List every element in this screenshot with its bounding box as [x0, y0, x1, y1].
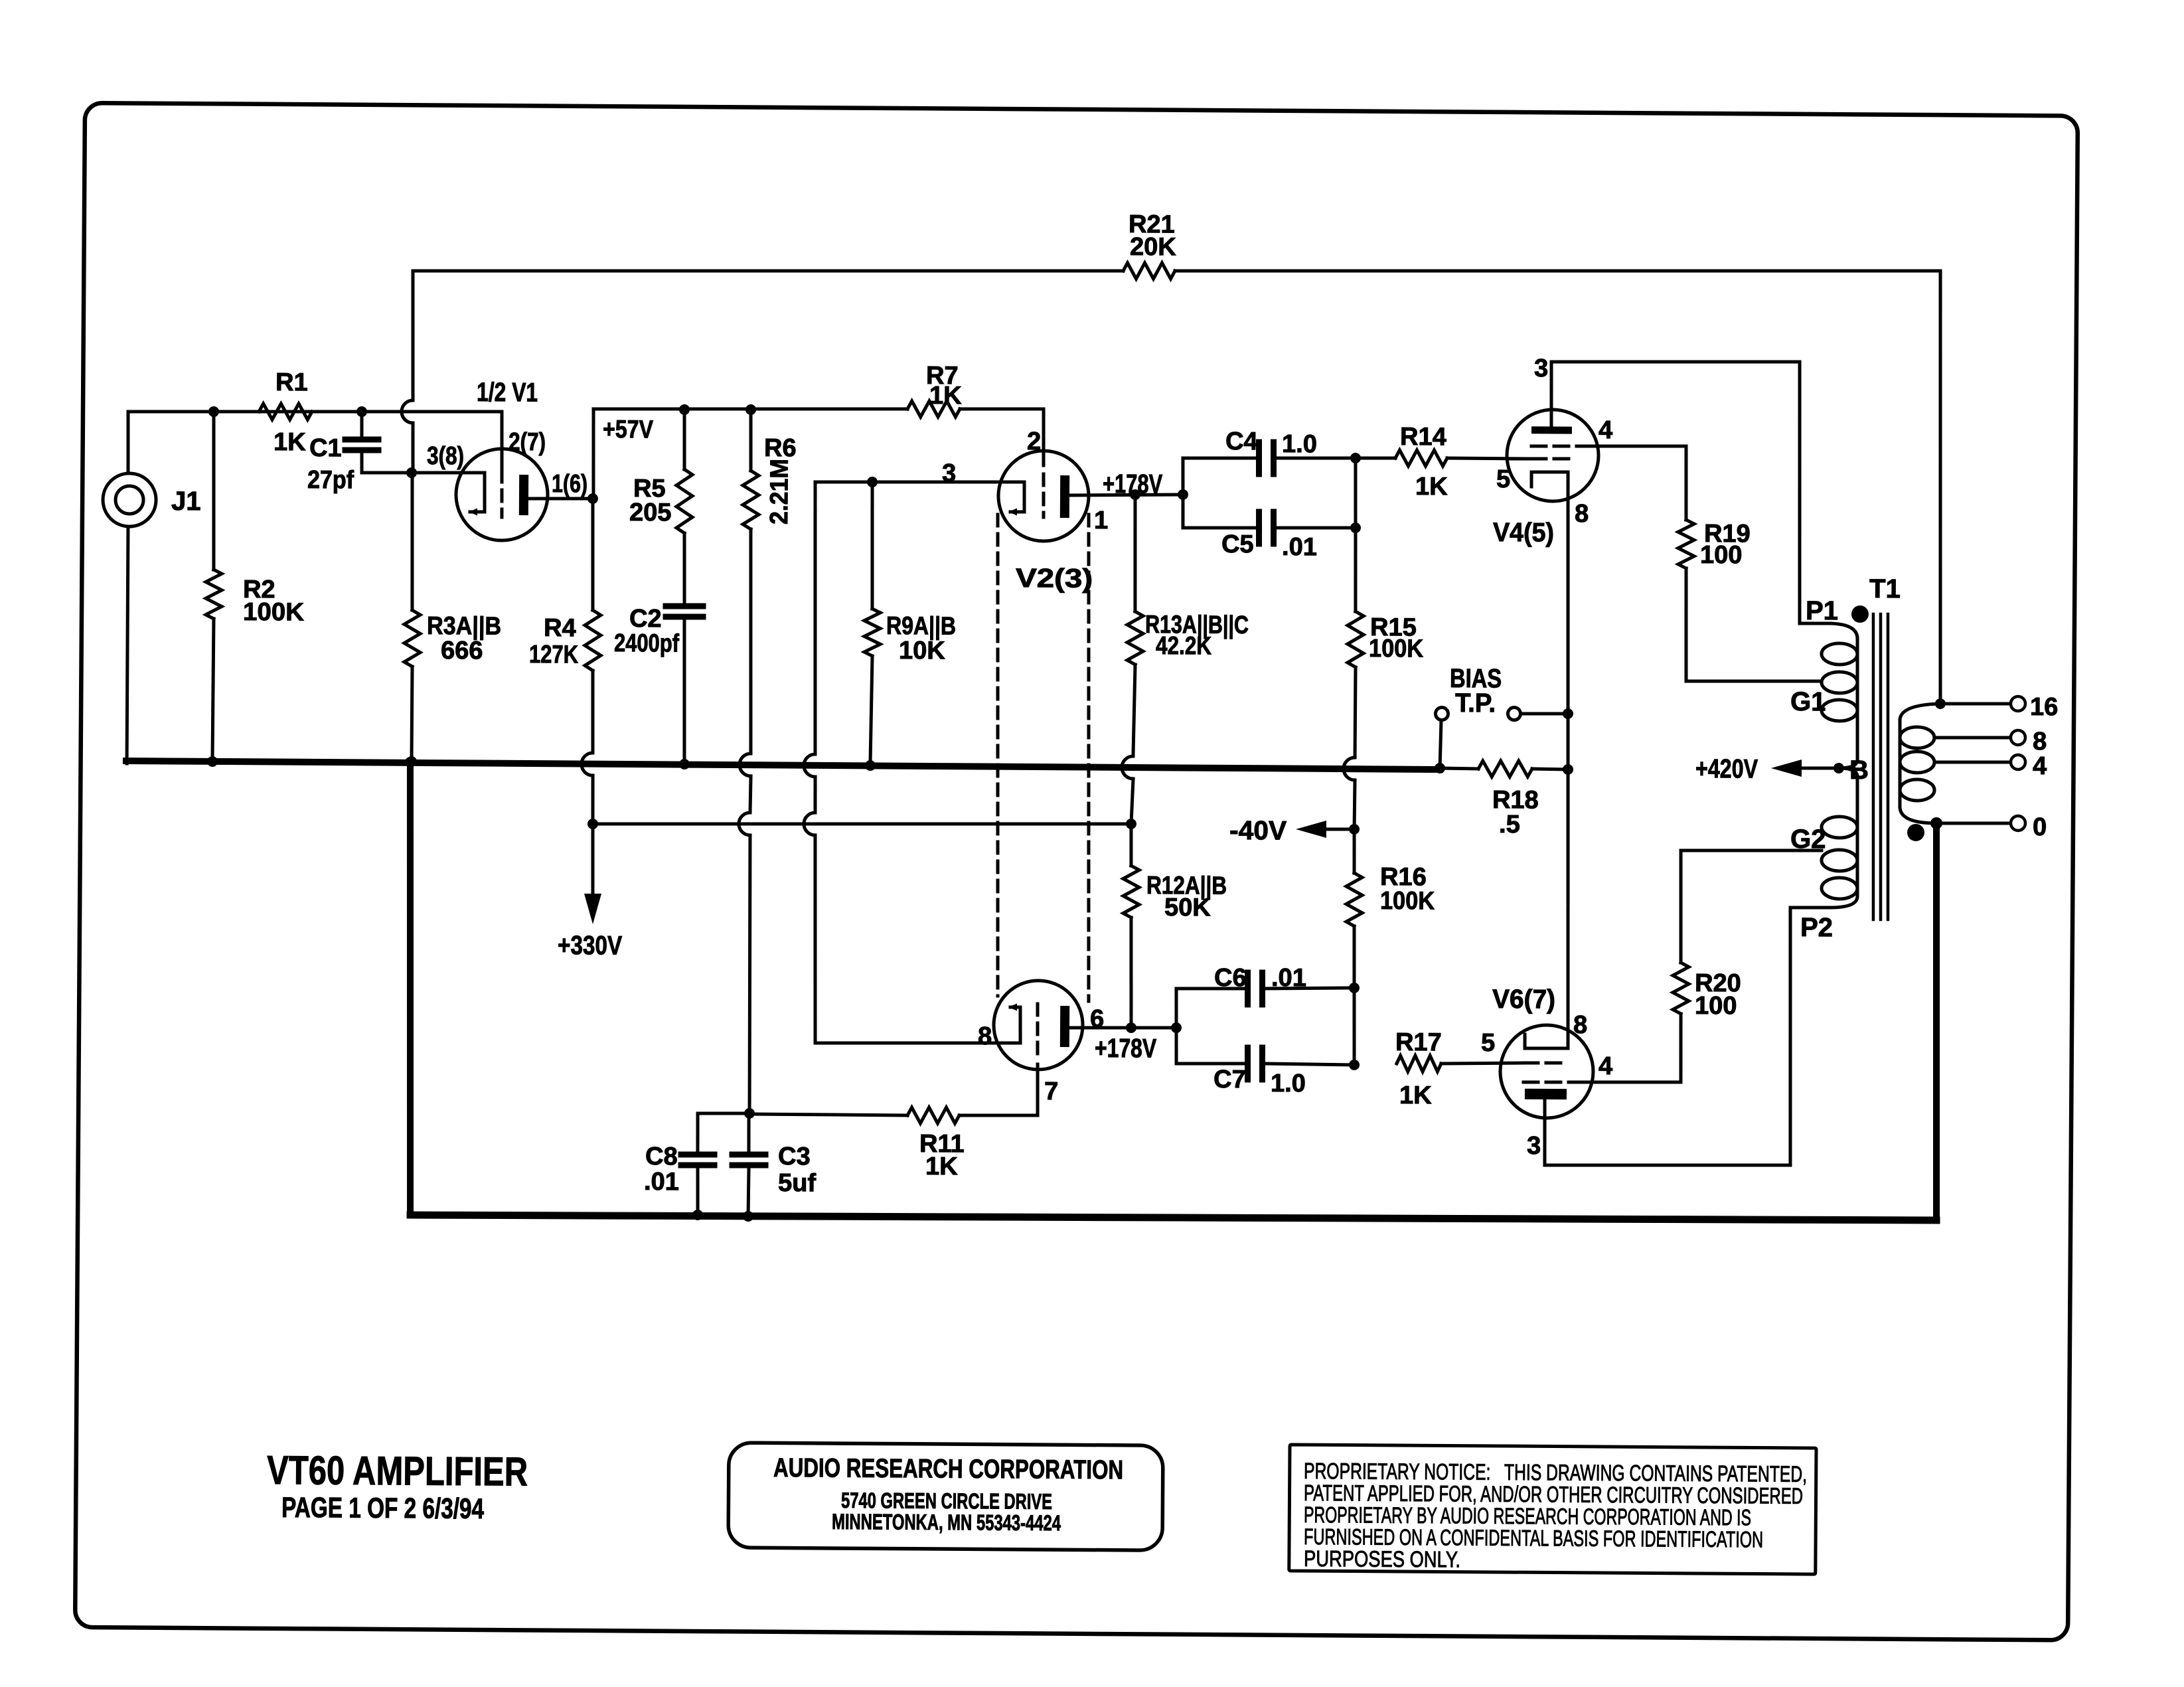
resistor R9A||B [864, 609, 881, 656]
svg-text:0: 0 [2033, 813, 2047, 841]
svg-text:R4: R4 [544, 614, 576, 642]
svg-text:100K: 100K [1380, 887, 1435, 916]
wire V6 screen to R20 [1577, 1013, 1681, 1083]
wire V4/V6 cathode bus [1564, 472, 1571, 1048]
node C8/bus junction [692, 1210, 703, 1220]
box proprietary notice [1289, 1445, 1816, 1574]
svg-text:1/2 V1: 1/2 V1 [477, 378, 538, 408]
wire R13 down [1133, 665, 1135, 756]
svg-text:100: 100 [1695, 992, 1737, 1020]
wire R17 to V6 grid [1441, 1062, 1524, 1064]
node bus end junction [1435, 763, 1445, 773]
wire feedback R21 left leg [412, 271, 414, 400]
terminal 4 [2011, 755, 2025, 769]
wire R13 top lead [1134, 495, 1136, 611]
node R9/bus junction [865, 760, 876, 771]
transformer T1 primary lower winding [1839, 768, 1857, 777]
tube envelope dashed link left [994, 515, 1000, 996]
svg-text:2(7): 2(7) [508, 428, 546, 456]
svg-text:B: B [1849, 756, 1869, 785]
transformer T1 core [1871, 614, 1875, 920]
tube V4 plate bar [1531, 426, 1572, 434]
arrow -40V [1296, 821, 1326, 838]
svg-text:.01: .01 [1271, 964, 1306, 992]
node V1 grid junction [406, 467, 417, 478]
tube V2 cathode bar [1060, 475, 1069, 518]
wire 16 ohm tap [1940, 703, 2009, 704]
wire C5 to node [1276, 527, 1356, 528]
wire R19 to G1 tap [1685, 568, 1822, 682]
wire C1 to V1 grid (y=712) [362, 472, 485, 473]
svg-text:4: 4 [1599, 416, 1612, 444]
node R3/bus junction [406, 756, 417, 767]
svg-text:C7: C7 [1213, 1066, 1246, 1093]
svg-text:20K: 20K [1130, 233, 1177, 261]
node C1 top junction [356, 406, 367, 417]
wire C4 node to R14 [1356, 456, 1395, 460]
svg-text:205: 205 [629, 499, 672, 526]
resistor R6 [743, 471, 759, 529]
wire 0 ohm tap [1936, 823, 2009, 823]
wire R4 to +330V node [592, 671, 593, 753]
svg-text:5: 5 [1481, 1029, 1495, 1057]
node TP2/cathode junction [1563, 708, 1573, 719]
resistor R4 [585, 610, 601, 671]
node R13 top junction [1130, 489, 1140, 500]
wire V1 cathode pin 1(6) [528, 498, 593, 499]
svg-text:C1: C1 [309, 434, 342, 462]
tube V4 cathode hook pin 8 [1531, 472, 1568, 487]
svg-text:3(8): 3(8) [427, 442, 464, 470]
capacitor C2 [666, 603, 703, 609]
wire +330V arrow stem [592, 824, 593, 895]
tube V3 cathode bar [1060, 1006, 1069, 1047]
svg-text:R6: R6 [764, 434, 797, 462]
tube V4 screen grid dashes pin 4 [1531, 444, 1579, 448]
svg-text:PAGE 1 OF 2 6/3/94: PAGE 1 OF 2 6/3/94 [281, 1492, 484, 1525]
box Audio Research Corporation [728, 1443, 1163, 1550]
wire R14 to V4 grid [1447, 456, 1527, 460]
wire V1 cathode down to R4 [592, 499, 593, 610]
wire R3 to bus [412, 667, 412, 762]
svg-text:R14: R14 [1400, 423, 1446, 451]
svg-text:+57V: +57V [603, 416, 654, 443]
node C6/R16 junction [1349, 983, 1360, 993]
resistor R17 [1397, 1056, 1441, 1072]
wire V4 grid entry [1507, 457, 1531, 460]
node -40V junction [1349, 824, 1360, 835]
wire grid node down to R3 [412, 473, 414, 610]
wire +57V rail riser [593, 409, 594, 499]
svg-text:42.2K: 42.2K [1156, 632, 1212, 661]
resistor R21 [1123, 263, 1175, 280]
svg-text:V2(3): V2(3) [1016, 564, 1093, 594]
terminal 16 [2011, 696, 2025, 711]
wire -40V arrow stem [1325, 827, 1354, 831]
connector J1 outer [103, 473, 157, 527]
wire R5 to C2 [684, 533, 684, 603]
wire R12 to V3 cathode node [1131, 918, 1132, 1028]
wire bottom return bus (thick) [410, 1210, 1936, 1225]
svg-text:1K: 1K [925, 1153, 958, 1180]
svg-text:+178V: +178V [1095, 1034, 1157, 1064]
node V1 cathode junction [587, 493, 598, 504]
node 0 tap junction [1930, 817, 1942, 829]
tube V4 envelope [1507, 410, 1599, 502]
svg-text:2400pf: 2400pf [614, 629, 680, 658]
node C7/R17 junction [1349, 1060, 1360, 1070]
resistor R11 [907, 1107, 959, 1124]
resistor R15 [1348, 611, 1364, 667]
svg-text:1K: 1K [1415, 473, 1448, 501]
svg-text:8: 8 [2033, 728, 2047, 756]
svg-text:50K: 50K [1164, 894, 1211, 922]
tube V2 envelope [998, 451, 1089, 542]
svg-text:2.21M: 2.21M [765, 459, 794, 524]
svg-text:1.0: 1.0 [1282, 430, 1317, 458]
svg-text:6: 6 [1090, 1005, 1104, 1033]
wire R21 left segment [413, 266, 1123, 276]
node +330V junction [587, 819, 598, 829]
capacitor C8 [681, 1151, 714, 1158]
wire R7 to V2 pin 2 [960, 408, 1044, 451]
wire J1 stem [127, 412, 128, 473]
wire secondary return (thick) [1934, 823, 1939, 1220]
wire C7 to R17 node [1265, 1064, 1354, 1065]
svg-text:G2: G2 [1790, 825, 1826, 854]
wire R5 top lead [684, 410, 684, 469]
wire input to V1 pin2 (y=620) [128, 409, 502, 414]
resistor R9A||B leads [872, 482, 873, 609]
wire 4 ohm tap [1934, 762, 2009, 763]
tube V2 grid lead pin 2 [1042, 451, 1045, 465]
svg-text:4: 4 [1599, 1052, 1612, 1080]
capacitor C1 [360, 412, 363, 437]
svg-text:.5: .5 [1499, 811, 1520, 839]
wire R15 down [1354, 667, 1358, 758]
tube V3 plate bracket pin 8 [1006, 1007, 1020, 1043]
svg-text:100: 100 [1700, 541, 1743, 569]
wire C6 node to C7 node [1354, 988, 1355, 1065]
tube V6 screen grid dashes pin 4 [1523, 1082, 1577, 1082]
svg-text:T.P.: T.P. [1455, 688, 1496, 718]
wire +57V rail [593, 407, 907, 411]
tube V6 cathode hook pin 8 [1525, 1034, 1568, 1048]
test point BIAS T.P. left [1435, 707, 1448, 720]
resistor R7 [907, 401, 960, 418]
wire R6 top lead [750, 410, 751, 471]
svg-text:T1: T1 [1869, 574, 1901, 603]
svg-text:8: 8 [978, 1022, 992, 1050]
svg-text:3: 3 [1534, 355, 1548, 382]
wire R16 top lead [1352, 829, 1356, 873]
wire to R15 [1355, 528, 1356, 611]
wire R16 to C6 node [1354, 926, 1354, 988]
svg-text:8: 8 [1575, 500, 1589, 528]
arrow +420V [1771, 760, 1802, 777]
resistor R13A||B||C [1127, 611, 1144, 665]
resistor R14 [1395, 450, 1447, 467]
svg-text:+330V: +330V [558, 931, 623, 961]
wire R21 right segment [1172, 266, 1943, 703]
wire C2 to bus [684, 619, 686, 763]
node B tap junction [1833, 763, 1844, 773]
tube V6 envelope [1500, 1025, 1594, 1119]
svg-text:.01: .01 [1282, 533, 1317, 561]
wire R11 to R6/C3 node [749, 1114, 907, 1115]
resistor R20 [1673, 963, 1689, 1014]
svg-text:127K: 127K [529, 641, 579, 669]
svg-text:P2: P2 [1800, 913, 1833, 942]
node R6 top junction [745, 404, 756, 415]
svg-text:100K: 100K [243, 598, 305, 627]
node C4/R14 junction [1350, 453, 1361, 463]
tube V3 grid lead pin 7 [1037, 1004, 1038, 1060]
node R2/bus junction [207, 756, 218, 767]
transformer T1 primary winding [1830, 623, 1857, 639]
polarity dot T1 primary [1851, 605, 1869, 623]
capacitor C5 [1256, 512, 1263, 544]
resistor R2 branch [212, 412, 214, 570]
tube V6 control grid dashes pin 5 [1523, 1061, 1563, 1065]
resistor R16 [1346, 873, 1363, 926]
node R2 top junction [208, 406, 219, 417]
connector J1 inner [116, 486, 143, 514]
svg-text:5: 5 [1496, 465, 1510, 493]
node C2/bus junction [679, 759, 690, 769]
test point BIAS T.P. right [1508, 707, 1520, 720]
wire V4 plate to transformer P1 [1549, 361, 1832, 624]
wire 8 ohm tap [1934, 737, 2009, 738]
svg-text:R1: R1 [275, 368, 308, 396]
svg-text:PURPOSES ONLY.: PURPOSES ONLY. [1304, 1546, 1460, 1573]
wire thick vertical tie [408, 763, 414, 1215]
terminal 0 [2011, 816, 2025, 831]
svg-text:V6(7): V6(7) [1492, 985, 1555, 1014]
wire V3 cathode pin 6 (+178V) [1069, 1027, 1131, 1028]
terminal 8 [2011, 730, 2025, 745]
tube V3 envelope [994, 981, 1083, 1070]
resistor R12A||B [1123, 866, 1140, 918]
svg-text:5uf: 5uf [778, 1169, 817, 1197]
tube envelope dashed link right [1085, 515, 1091, 1001]
svg-text:4: 4 [2033, 752, 2047, 780]
svg-text:1.0: 1.0 [1271, 1070, 1306, 1097]
capacitor C3 [732, 1151, 765, 1158]
svg-text:C2: C2 [629, 605, 662, 633]
node C5 junction [1350, 522, 1361, 533]
wire V2 grid [815, 481, 1007, 483]
svg-text:1K: 1K [1399, 1082, 1432, 1109]
wire R18 right lead [1532, 767, 1568, 771]
svg-text:16: 16 [2030, 693, 2059, 721]
svg-text:666: 666 [441, 637, 483, 665]
wire J1 to ground bus [127, 526, 129, 763]
node bus tie junction [405, 757, 416, 767]
wire C6 branch [1176, 988, 1245, 1028]
svg-text:C3: C3 [778, 1143, 811, 1170]
svg-text:V4(5): V4(5) [1493, 518, 1554, 548]
svg-text:3: 3 [1527, 1132, 1541, 1160]
tube V1 cathode bar [519, 475, 528, 515]
node C4/C5 branch junction [1178, 489, 1188, 500]
wire TP1 stem [1440, 720, 1441, 768]
node R6/R11/C3 junction [744, 1108, 755, 1119]
svg-text:-40V: -40V [1229, 816, 1287, 846]
wire C5 branch [1183, 495, 1257, 528]
tube V6 plate bar [1525, 1089, 1567, 1099]
capacitor C6 [1245, 973, 1251, 1004]
svg-text:1K: 1K [273, 428, 306, 456]
tube V4 control grid dashes pin 5 [1531, 457, 1570, 461]
svg-text:1: 1 [1094, 507, 1108, 534]
wire R6 down [749, 529, 752, 754]
svg-text:J1: J1 [171, 487, 201, 516]
svg-text:1K: 1K [929, 382, 962, 410]
wire V2 cathode pin 1 (+178V) [1069, 494, 1183, 496]
wire C4 to C5 node [1355, 458, 1356, 528]
wire C7 branch [1176, 1028, 1245, 1064]
resistor R5 [676, 469, 693, 533]
wire cross-couple V2 grid to V3 plate [813, 482, 817, 754]
svg-text:+420V: +420V [1695, 754, 1758, 784]
svg-text:C6: C6 [1214, 964, 1247, 992]
node R18/cathode junction [1563, 764, 1573, 775]
wire C6 to R16 node [1265, 987, 1354, 989]
capacitor C3 branch [747, 1113, 751, 1152]
svg-text:10K: 10K [899, 637, 946, 665]
svg-text:1(6): 1(6) [552, 470, 587, 498]
svg-text:C8: C8 [645, 1143, 678, 1170]
svg-text:MINNETONKA, MN 55343-4424: MINNETONKA, MN 55343-4424 [832, 1509, 1061, 1535]
node R5 top junction [679, 404, 690, 415]
node C6/C7 branch junction [1171, 1022, 1182, 1033]
svg-text:8: 8 [1573, 1011, 1587, 1039]
svg-text:R17: R17 [1395, 1028, 1442, 1056]
wire +330V rail to R12/R13 [593, 821, 1131, 828]
wire R20 to G2 tap [1680, 850, 1822, 964]
svg-text:AUDIO RESEARCH CORPORATION: AUDIO RESEARCH CORPORATION [773, 1453, 1123, 1485]
capacitor C8 branch [698, 1113, 749, 1152]
tube V1 plate bracket pin 3(8) [470, 473, 485, 512]
resistor R1 [259, 404, 312, 420]
svg-text:3: 3 [942, 459, 956, 487]
tube V1 envelope [456, 449, 548, 541]
wire ground bus (thick) [126, 761, 1440, 769]
svg-text:C5: C5 [1221, 530, 1254, 558]
svg-text:.01: .01 [644, 1168, 679, 1196]
tube V1 grid pin 2(7) lead [501, 412, 502, 469]
capacitor C7 [1245, 1048, 1251, 1080]
svg-text:2: 2 [1027, 428, 1041, 455]
svg-text:G1: G1 [1790, 687, 1826, 716]
svg-text:7: 7 [1044, 1078, 1058, 1105]
node C3/bus junction [743, 1211, 753, 1222]
svg-text:VT60 AMPLIFIER: VT60 AMPLIFIER [267, 1447, 528, 1494]
wire C4 to R14 [1276, 457, 1356, 459]
svg-text:C4: C4 [1225, 428, 1258, 455]
resistor R19 [1678, 520, 1695, 568]
wire R18 left lead [1440, 767, 1478, 771]
wire V6 plate to transformer P2 [1544, 906, 1830, 1167]
svg-text:100K: 100K [1369, 635, 1424, 663]
node R9 top junction [867, 477, 878, 487]
capacitor C4 [1256, 442, 1263, 474]
node R12/+178V junction [1126, 1022, 1136, 1033]
tube V2 plate bracket pin 3 [1007, 482, 1025, 512]
resistor R2 [206, 570, 222, 619]
wire V4 screen to R19 [1578, 445, 1686, 520]
node 16 tap junction [1935, 698, 1946, 709]
wire R12 top lead [1129, 824, 1133, 866]
svg-text:27pf: 27pf [307, 466, 354, 494]
node R13/R12 junction [1126, 819, 1136, 829]
resistor R3A||B [404, 610, 421, 667]
resistor R18 [1478, 761, 1532, 777]
wire C4 branch [1183, 457, 1256, 495]
wire TP2 link [1521, 712, 1568, 716]
svg-text:P1: P1 [1806, 596, 1838, 625]
polarity dot T1 secondary [1907, 824, 1924, 841]
arrow +330V [584, 894, 601, 924]
